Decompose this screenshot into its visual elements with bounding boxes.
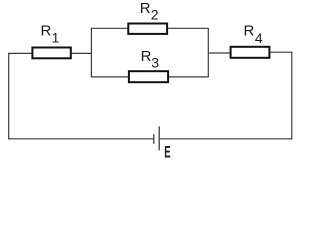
svg-text:R: R	[140, 0, 151, 17]
svg-text:E: E	[164, 143, 170, 161]
wire R4 to right vertical	[270, 51, 292, 53]
resistor R3	[129, 71, 168, 82]
wire right junction to R4	[208, 52, 230, 54]
svg-text:R: R	[244, 23, 255, 40]
wire bottom branch left	[91, 76, 129, 78]
svg-text:2: 2	[151, 6, 159, 22]
battery E short plate	[153, 134, 155, 144]
battery E long plate	[158, 126, 160, 150]
svg-text:1: 1	[52, 29, 60, 45]
wire top branch left	[91, 27, 128, 29]
node right junction vertical	[207, 28, 209, 77]
resistor R4	[231, 47, 270, 58]
svg-text:4: 4	[255, 30, 263, 46]
svg-text:3: 3	[151, 55, 159, 71]
node left junction vertical	[90, 28, 92, 77]
wire left vertical	[8, 53, 10, 139]
svg-text:R: R	[41, 23, 52, 40]
resistor R2	[128, 24, 167, 34]
wire top-left horizontal to R1	[8, 52, 32, 54]
wire right vertical	[291, 52, 293, 139]
svg-text:R: R	[141, 48, 152, 65]
wire bottom branch right	[169, 76, 209, 78]
wire R1 to left junction	[72, 52, 92, 54]
wire top branch right	[168, 27, 209, 29]
wire bottom right of battery	[159, 138, 292, 140]
resistor R1	[32, 48, 70, 59]
wire bottom left of battery	[8, 138, 154, 140]
